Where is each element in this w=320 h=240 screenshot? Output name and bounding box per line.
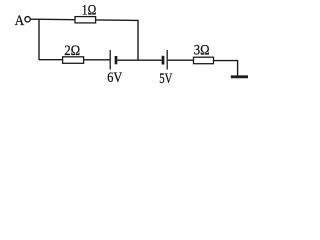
svg-text:5V: 5V: [159, 71, 172, 87]
wire: middle vertical branch: [137, 20, 139, 60]
svg-text:6V: 6V: [107, 70, 122, 86]
wire: resistor R1 to top-right corner: [96, 19, 139, 22]
svg-text:2Ω: 2Ω: [64, 43, 80, 59]
wire: right vertical drop to ground: [237, 61, 239, 77]
wire: battery B2 to resistor R3: [168, 59, 194, 61]
resistor R1 body (1 ohm): [75, 17, 96, 23]
battery B1 short thick plate (negative): [115, 56, 118, 64]
resistor R2 body (2 ohm): [63, 57, 84, 64]
svg-text:3Ω: 3Ω: [194, 43, 210, 59]
battery B1 long plate (positive): [109, 50, 111, 70]
svg-text:A: A: [15, 13, 25, 29]
resistor R3 body (3 ohm): [194, 57, 214, 64]
battery B2 long plate (positive): [166, 50, 168, 70]
wire: battery B1 to middle junction: [117, 59, 138, 61]
wire: middle junction to battery B2: [138, 59, 162, 61]
wire: bottom-left horizontal to resistor R2: [39, 59, 63, 61]
battery B2 short thick plate (negative): [162, 56, 165, 65]
wire: resistor R2 to battery B1: [84, 59, 110, 61]
svg-text:1Ω: 1Ω: [82, 3, 97, 19]
wire: terminal to resistor R1: [31, 18, 75, 21]
wire: resistor R3 to bottom-right corner: [214, 60, 239, 62]
wire: left vertical branch: [38, 19, 40, 60]
terminal (open circle) at node A: [25, 17, 30, 22]
ground bar: [231, 75, 248, 78]
